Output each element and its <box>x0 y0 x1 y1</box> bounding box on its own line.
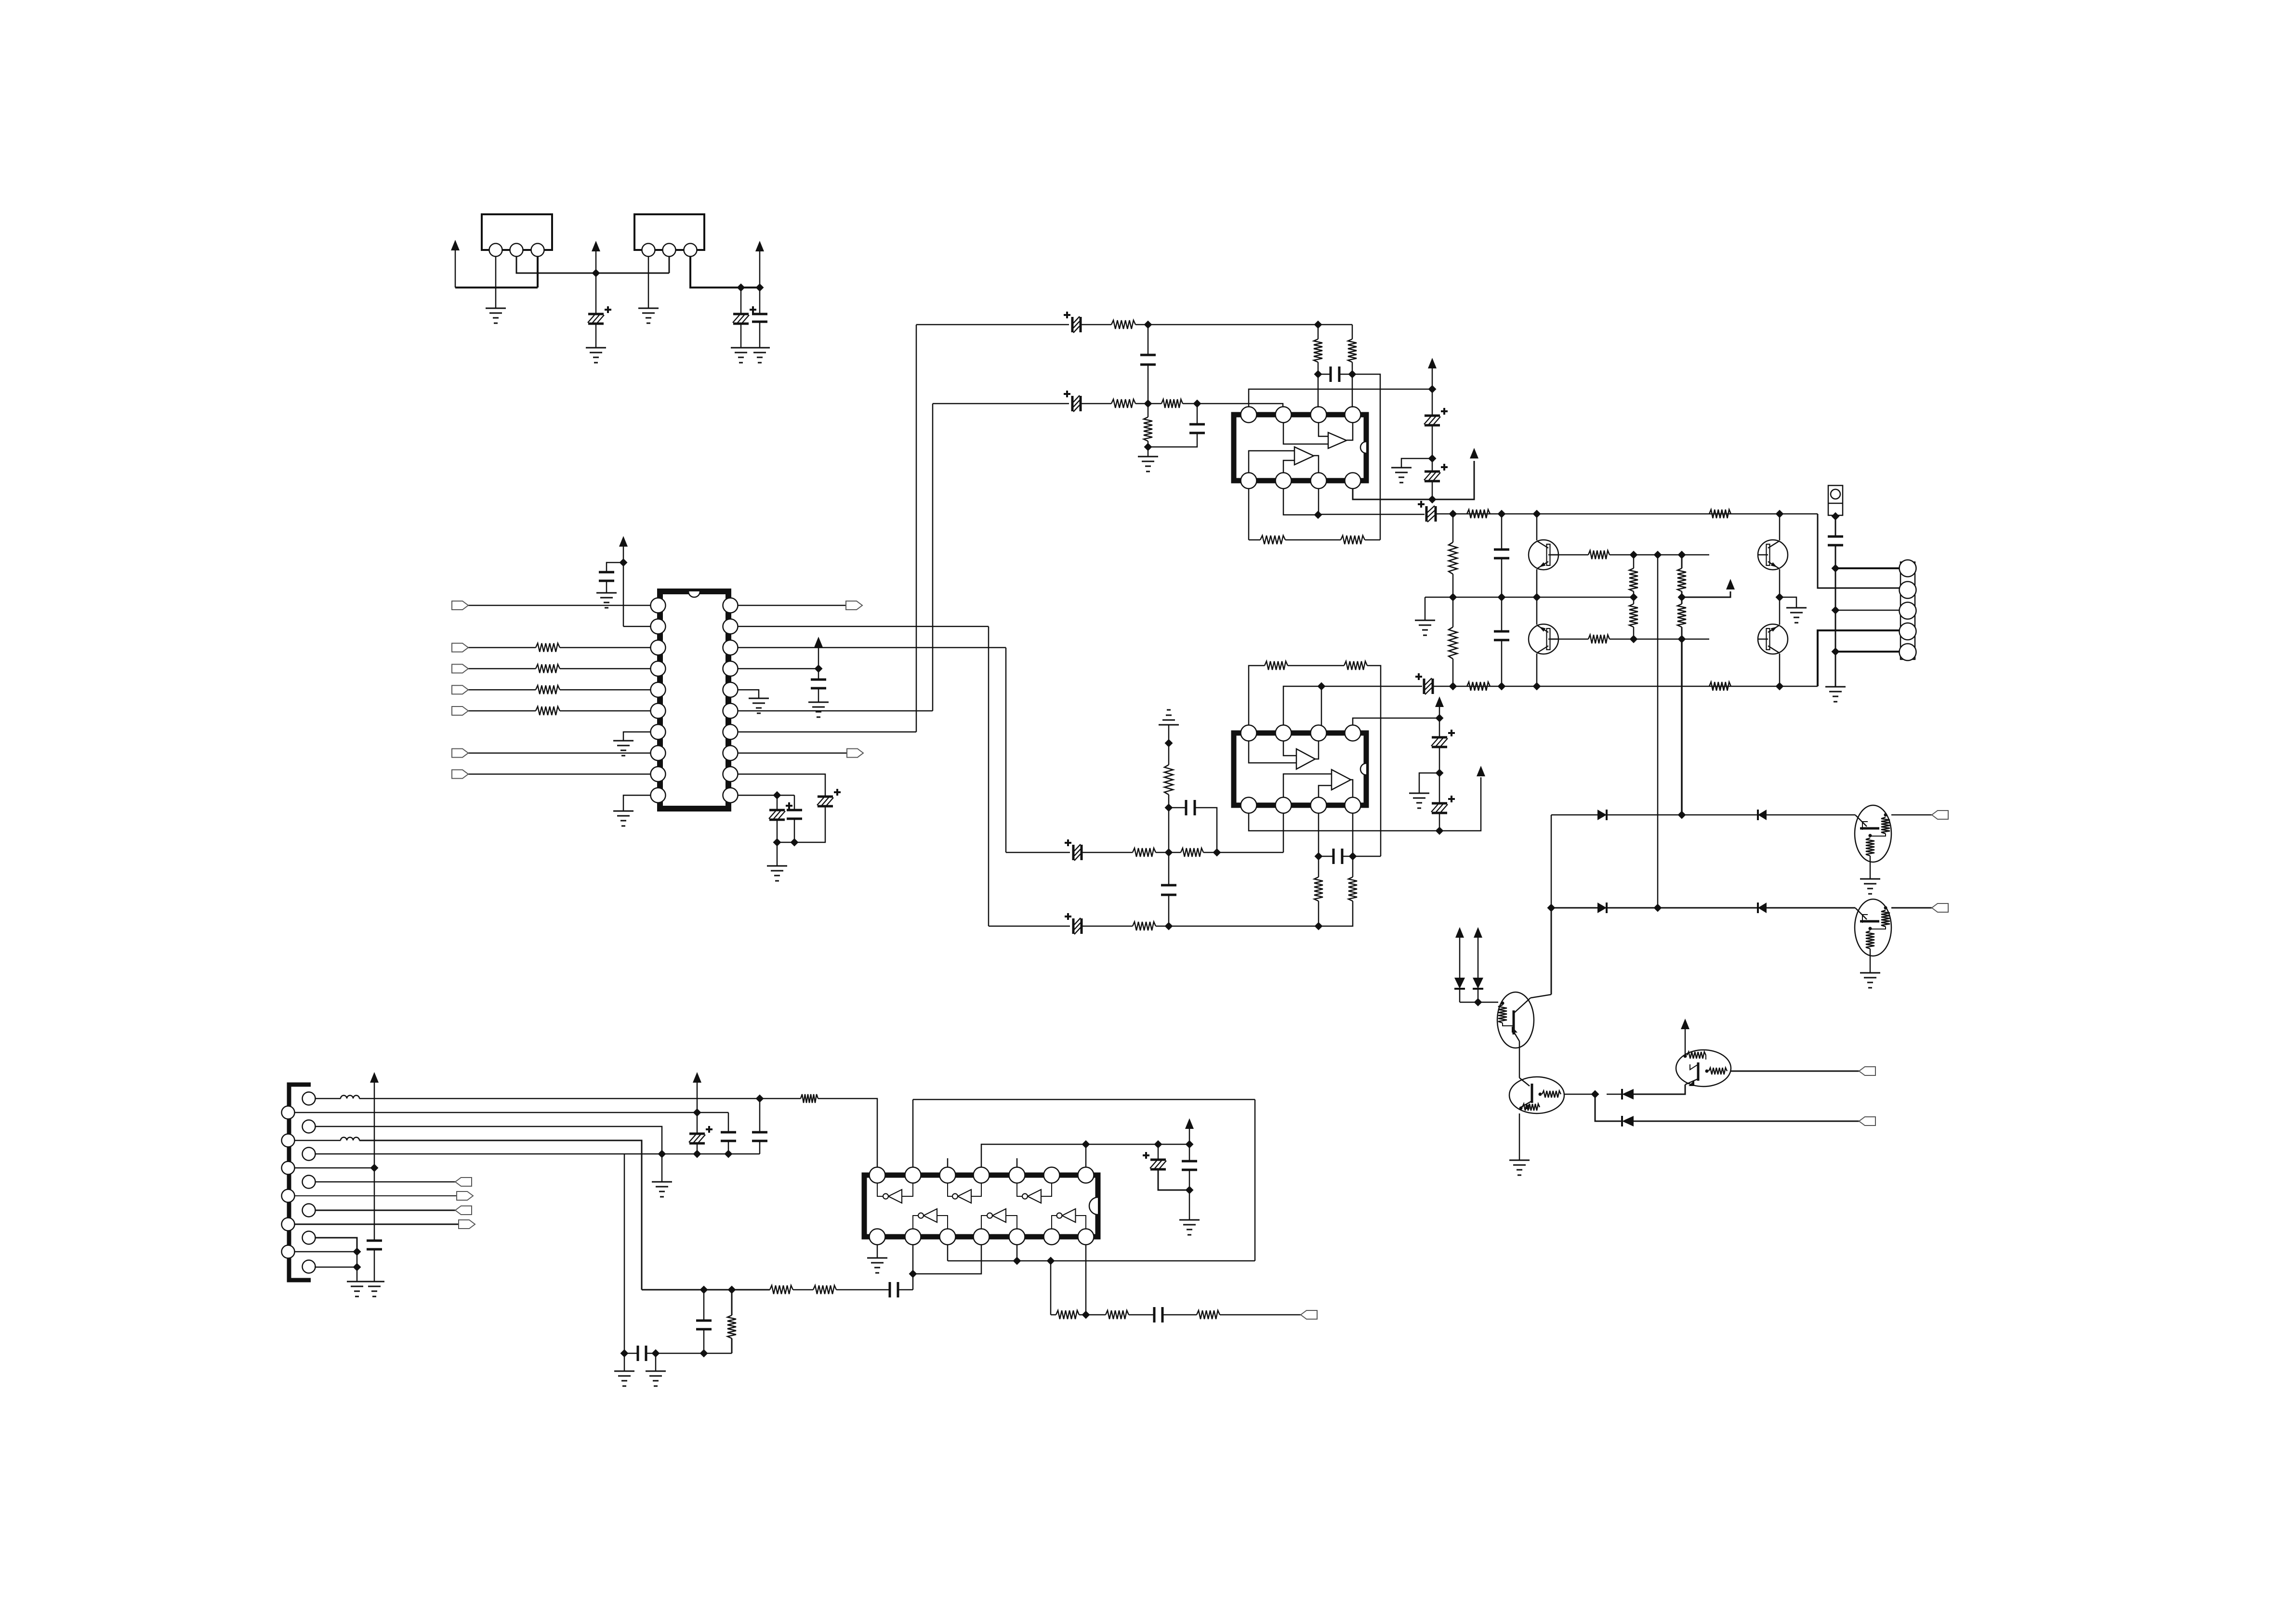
wire U1 pin3 b <box>560 647 651 648</box>
power flag chain <box>1428 358 1437 368</box>
U3 pin 7 top <box>1276 725 1292 741</box>
wire row4 out <box>1634 1121 1859 1122</box>
wire U3 pin2 down <box>1283 813 1284 852</box>
resistor T7a Rb <box>1498 1005 1507 1023</box>
power flag VIN <box>451 240 460 250</box>
U2 pin 7 top <box>1276 407 1292 423</box>
J3 pin B4 <box>303 1176 316 1189</box>
wire T7a e <box>1519 1041 1520 1078</box>
diode D4 <box>1758 903 1767 913</box>
wire U1 pin3 a <box>468 647 536 648</box>
wire fb right <box>1367 666 1381 856</box>
node chain3 mid <box>1165 804 1173 812</box>
wire top rail a <box>1318 514 1425 515</box>
node cc k <box>1186 1186 1194 1194</box>
resistor R22 <box>1709 510 1731 518</box>
electrolytic capacitor C7 <box>769 809 785 811</box>
ground X2 <box>638 308 659 309</box>
wire Q2 base a <box>1550 639 1588 640</box>
terminal A5 <box>459 1220 475 1229</box>
wire fb b <box>1285 539 1341 541</box>
wire line B a <box>989 926 1070 927</box>
wire C2 to ground <box>740 324 742 348</box>
wire U1 pin20 <box>738 605 846 606</box>
wire U3 t1 in+ <box>1283 741 1296 756</box>
U1 pin 15 <box>723 704 738 719</box>
J3 pin A6 <box>282 1245 295 1258</box>
wire U1 pin15 route up <box>932 404 934 711</box>
wire col3491 b <box>1681 591 1683 597</box>
resistor T8 Rb2 <box>1709 1068 1727 1074</box>
wire out3 to pin5 <box>1835 651 1900 653</box>
wire U3 t1 out <box>1315 741 1319 759</box>
wire rrow corner <box>1050 1261 1052 1315</box>
wire col3391 b <box>1633 591 1635 597</box>
node base1 a <box>1630 551 1638 559</box>
node A6 j <box>353 1248 361 1256</box>
power flag bp1 <box>1477 766 1485 776</box>
wire U2 pin3 down <box>1318 488 1320 515</box>
X1 pin 2 <box>510 244 523 257</box>
ground C3 <box>750 347 770 349</box>
wire chain d <box>1432 481 1433 499</box>
wire cap row a <box>1318 374 1331 375</box>
U1 notch <box>688 591 700 597</box>
U2 pin 4 bottom <box>1345 473 1361 489</box>
U1 pin 8 <box>651 746 666 760</box>
wire B1 c <box>818 1099 877 1099</box>
wire U1 pin18 <box>738 647 1006 648</box>
power flag VREG1 <box>592 241 600 251</box>
wire mid gnd stub <box>1425 597 1426 620</box>
U1 pin 17 <box>723 661 738 676</box>
wire U4 tp3 stub <box>947 1158 949 1167</box>
wire R9 stub a <box>1318 325 1319 339</box>
wire D6 b <box>1478 989 1479 1002</box>
wire T8 c <box>1685 1029 1686 1055</box>
U4 pin 5 bottom <box>1009 1229 1025 1245</box>
op-amp U2B <box>1294 447 1314 465</box>
wire line A b <box>1082 852 1133 853</box>
node tp4 line <box>1436 714 1444 722</box>
wire tp4 line <box>981 1144 1189 1167</box>
node fb R <box>1349 852 1357 861</box>
ground output <box>1825 686 1846 688</box>
wire to C8 <box>794 795 795 810</box>
J3 pin B6 <box>303 1231 316 1244</box>
electrolytic capacitor C16 <box>1425 471 1440 473</box>
node mid c <box>1533 593 1541 602</box>
IC U4 body <box>864 1175 1098 1237</box>
wire top rail b <box>1436 513 1453 515</box>
wire U3 pin5 up <box>1353 718 1439 725</box>
node c32 j <box>725 1150 733 1158</box>
wire A1 <box>295 1112 728 1113</box>
ground C2 <box>731 347 751 349</box>
node row3 <box>1591 1090 1599 1099</box>
wire U1 pin18 route down <box>1005 648 1007 852</box>
inverter U4B <box>958 1190 971 1203</box>
node bp4 line <box>1428 496 1437 504</box>
capacitor C12 <box>1189 424 1205 433</box>
node B7 j <box>353 1263 361 1271</box>
wire R8 stub a <box>1148 404 1149 417</box>
J3 pin B7 <box>303 1260 316 1273</box>
wire input line1 b <box>1081 324 1111 326</box>
wire long v3491 <box>1681 639 1683 815</box>
ground B3 <box>652 1181 672 1183</box>
X2 pin 3 <box>684 244 697 257</box>
wire T6 rb elbow <box>1870 927 1886 929</box>
wire D5 b <box>1459 989 1461 1002</box>
wire out v a <box>1835 568 1836 610</box>
wire cc b <box>1189 1170 1190 1190</box>
wire U1 pin7 to ground <box>623 732 651 741</box>
wire c37 a <box>374 1168 375 1241</box>
wire inv out <box>948 1183 952 1196</box>
wire out v b <box>1835 610 1836 652</box>
resistor R34 <box>1106 1310 1129 1319</box>
ground C7 <box>767 865 787 867</box>
U4 pin 7 top <box>1078 1167 1094 1183</box>
ground J3 a <box>347 1281 367 1283</box>
node row2 x3441 <box>1654 904 1662 912</box>
connector J2 body <box>1828 485 1843 515</box>
transistor Q4 <box>1758 624 1788 654</box>
wire Q4 e <box>1779 597 1781 625</box>
terminal U1 pin6 <box>452 707 468 715</box>
node mid a <box>1449 593 1457 602</box>
capacitor C23 <box>1186 800 1195 815</box>
connector J2 pin circle <box>1831 489 1840 499</box>
node row2 x3220 <box>1547 904 1556 912</box>
node row1 x3491 <box>1678 811 1686 819</box>
power flag J3 <box>693 1072 701 1083</box>
wire in line a <box>642 1289 770 1291</box>
wire U2 pin1 down <box>1248 488 1250 540</box>
resistor T7b Re <box>1522 1104 1540 1111</box>
wire U1 pin11 a <box>738 795 794 796</box>
wire row1 out <box>1891 814 1932 816</box>
ground line2 net <box>1138 456 1158 458</box>
wire Q1 c <box>1536 514 1538 540</box>
U1 pin 11 <box>723 788 738 803</box>
ground inv chain <box>1159 724 1179 726</box>
node line2 A <box>1144 400 1152 408</box>
node in a <box>700 1286 708 1294</box>
resistor R7 <box>1161 399 1183 408</box>
wire c35 a <box>703 1290 705 1321</box>
wire row1 <box>1551 814 1855 816</box>
electrolytic capacitor C10 <box>1071 396 1074 411</box>
resistor T5 Re <box>1866 838 1874 856</box>
transistor T5 body <box>1855 805 1891 862</box>
wire inv in <box>937 1216 948 1229</box>
op-amp U3A <box>1296 749 1315 769</box>
wire <box>623 626 651 628</box>
U1 pin 5 <box>651 682 666 697</box>
wire rail to conn pin2 <box>1818 514 1900 588</box>
wire in line d <box>898 1289 913 1291</box>
J1 pin 1 <box>1900 560 1916 577</box>
terminal U1 pin8 <box>452 749 468 758</box>
wire to C2 <box>740 288 742 314</box>
capacitor C29 <box>1182 1161 1197 1170</box>
wire cap elbow b <box>1195 808 1217 852</box>
resistor R28 <box>1588 635 1610 643</box>
U1 pin 4 <box>651 661 666 676</box>
wire ec a <box>1158 1144 1159 1160</box>
J3 pin B1 <box>303 1092 316 1105</box>
wire C5 to ground <box>818 688 819 702</box>
wire ec31 a <box>697 1113 698 1134</box>
node bp7 <box>1082 1311 1090 1319</box>
wire R15 stub b <box>1318 901 1320 926</box>
node VREG1 <box>592 269 600 277</box>
U4 pin 1 top <box>870 1167 885 1183</box>
node B1 j <box>756 1095 764 1103</box>
node U1 pin11 <box>773 791 781 799</box>
wire X1 pin2 out <box>516 256 669 273</box>
wire row2 out <box>1891 907 1932 909</box>
resistor R27 <box>1588 550 1610 559</box>
resistor R9 <box>1314 339 1322 362</box>
wire line B b <box>1082 926 1133 927</box>
wire to U2 pin6 <box>1352 374 1353 407</box>
wire col3491 c <box>1681 597 1683 604</box>
wire tp7 up <box>1085 1144 1087 1167</box>
wire col3117 b <box>1501 558 1503 597</box>
node rail1 d <box>1776 510 1784 518</box>
wire cc gnd <box>1189 1190 1190 1220</box>
resistor R14 <box>1344 661 1367 670</box>
wire col3117 d <box>1501 640 1503 686</box>
node line A x2526 <box>1213 849 1221 857</box>
power flag T8 <box>1681 1019 1689 1029</box>
node c31 j <box>693 1150 701 1158</box>
U3 notch <box>1360 763 1366 775</box>
node line1 R <box>1144 321 1152 329</box>
ground chain2 <box>1409 793 1429 794</box>
ground Q34 <box>1786 607 1807 609</box>
capacitor C33 <box>752 1132 767 1141</box>
wire U4 bp5 up <box>1016 1245 1018 1261</box>
U1 pin 18 <box>723 640 738 655</box>
op-amp U3B <box>1332 770 1351 790</box>
wire U1 pin17 <box>738 668 818 669</box>
electrolytic capacitor C17 <box>1423 679 1425 694</box>
wire chain c <box>1432 458 1433 471</box>
node line A x2426 <box>1165 849 1173 857</box>
U2 pin 2 bottom <box>1276 473 1292 489</box>
ground filter 1 <box>614 1371 634 1372</box>
wire U1 pin5 a <box>468 689 536 691</box>
diode D6 <box>1473 978 1483 989</box>
X1 pin 1 <box>489 244 502 257</box>
wire rrow b <box>1079 1314 1106 1316</box>
wire U2 t2 in+ <box>1249 451 1294 473</box>
wire A2 a <box>295 1140 341 1141</box>
wire T6 e <box>1870 949 1871 973</box>
J3 pin B3 <box>303 1148 316 1161</box>
wire U1 pin13 <box>738 752 847 754</box>
wire rail to conn pin4 <box>1818 630 1900 686</box>
wire U4 tp2 out <box>912 1099 914 1167</box>
wire U2 t1 in+ <box>1319 422 1328 436</box>
terminal U1 pin5 <box>452 685 468 694</box>
node bp2 <box>909 1270 917 1278</box>
wire line B c <box>1156 926 1319 927</box>
wire T7a rb elbow <box>1503 1023 1514 1026</box>
node rail2 a <box>1449 682 1457 691</box>
op-amp U2A <box>1328 432 1346 448</box>
wire inv out <box>877 1183 883 1196</box>
node rail2 d <box>1776 682 1784 691</box>
ground U4 bp1 <box>867 1257 887 1259</box>
wire B3 gnd stub <box>661 1154 663 1182</box>
wire T5 rb elbow <box>1870 834 1886 836</box>
wire col3391 c <box>1633 597 1635 604</box>
J3 pin B2 <box>303 1120 316 1133</box>
ground C1 <box>586 347 606 349</box>
wire C6 down <box>794 806 825 842</box>
wire row4 elbow <box>1595 1094 1622 1121</box>
electrolytic capacitor C31 <box>689 1133 705 1135</box>
electrolytic capacitor C18 <box>1432 736 1447 739</box>
wire Q34 gnd stub <box>1780 597 1796 608</box>
terminal AOUT <box>1301 1310 1317 1319</box>
wire Q3 c <box>1779 514 1781 540</box>
wire U3 pin4 down <box>1352 813 1354 856</box>
wire VREG1 to C1 <box>595 273 597 314</box>
wire U2 t2 out <box>1314 456 1319 473</box>
transistor T6 body <box>1855 899 1891 956</box>
U2 notch <box>1360 442 1366 453</box>
wire r39 a <box>731 1290 733 1315</box>
J3 pin A1 <box>282 1106 295 1119</box>
wire row2 to T7a <box>1551 908 1552 995</box>
resistor R20 <box>1164 765 1173 795</box>
ground A3 <box>364 1281 384 1283</box>
resistor R5 <box>1111 320 1135 329</box>
node out2 <box>1832 606 1840 615</box>
U1 pin 16 <box>723 682 738 697</box>
node tp7 j <box>1082 1140 1090 1149</box>
wire J2 to C27 <box>1835 516 1836 537</box>
capacitor C5 <box>811 680 826 688</box>
power flag U1 VCC <box>619 536 628 547</box>
wire top rail <box>1453 513 1818 515</box>
wire cap elbow a <box>1169 807 1186 809</box>
wire U1 pin5 b <box>560 689 651 691</box>
node C8 bottom <box>791 838 799 847</box>
resistor R23 <box>1467 682 1490 691</box>
wire B3 drop <box>624 1154 625 1353</box>
inverter U4C <box>1028 1190 1041 1203</box>
transistor Q2 <box>1529 624 1558 654</box>
node f b <box>652 1349 660 1358</box>
ground U1 pin7 <box>613 740 633 742</box>
wire cap row2 a <box>1319 856 1333 857</box>
J1 pin 5 <box>1900 644 1916 661</box>
wire C27 down <box>1835 545 1836 568</box>
node rail1 a <box>1449 510 1457 518</box>
wire VCC to C4 <box>607 563 623 572</box>
wire A2 b <box>359 1140 642 1290</box>
node det a <box>1013 1257 1021 1265</box>
U4 pin 7 bottom <box>1078 1229 1094 1245</box>
IC U1 body <box>660 591 728 809</box>
wire U4 out detour c <box>948 1260 1255 1262</box>
ground filter 2 <box>646 1371 666 1372</box>
resistor R38 <box>813 1285 836 1294</box>
wire bottom rail <box>1453 686 1818 687</box>
wire R8 stub b <box>1148 441 1149 447</box>
transistor Q3 <box>1758 540 1788 570</box>
capacitor C8 <box>787 810 802 819</box>
wire U2 pin4 down <box>1353 461 1474 499</box>
wire U1 pin19 <box>738 626 989 628</box>
transistor T7a body <box>1497 992 1534 1048</box>
wire A4 <box>295 1195 457 1196</box>
wire fb join <box>1353 856 1381 857</box>
X2 pin 2 <box>663 244 676 257</box>
wire C12 up <box>1197 404 1198 424</box>
wire inv out <box>981 1216 987 1229</box>
wire mid rail <box>1425 597 1634 598</box>
node base2 b <box>1678 635 1686 643</box>
IC U3 body <box>1234 733 1366 805</box>
terminal OUT2 <box>1932 903 1948 912</box>
wire X2 pin1 to ground <box>648 256 649 308</box>
node chain mid <box>1428 455 1437 463</box>
resistor R39 <box>727 1315 736 1338</box>
resistor R36 <box>801 1094 818 1103</box>
node U1 pin17 <box>815 665 823 673</box>
terminal B5 <box>455 1206 472 1215</box>
wire row1 corner <box>1551 815 1552 908</box>
J1 pin 3 <box>1900 602 1916 619</box>
node rail L <box>1314 511 1322 519</box>
wire U3 pin6 up <box>1321 686 1322 725</box>
U4 pin 2 bottom <box>905 1229 921 1245</box>
wire c35 b <box>703 1329 705 1353</box>
wire to U2 pin7 <box>1318 374 1319 407</box>
electrolytic capacitor C21 <box>1072 845 1075 860</box>
node VREG2 A <box>737 284 745 292</box>
node rail1 c <box>1533 510 1541 518</box>
resistor R29 <box>1629 568 1638 591</box>
X1 pin 3 <box>531 244 544 257</box>
wire C8 down <box>794 819 795 842</box>
electrolytic capacitor C1 <box>588 313 604 315</box>
node R8 bottom <box>1144 443 1152 451</box>
wire cap row2 b <box>1342 856 1353 857</box>
U2 pin 3 bottom <box>1311 473 1327 489</box>
node B3 gnd j <box>658 1150 666 1158</box>
node base1 b <box>1654 551 1662 559</box>
wire Q2 e <box>1536 597 1538 625</box>
terminal OUT3 <box>1859 1067 1875 1075</box>
resistor R12 <box>1341 536 1365 544</box>
node U1 VCC <box>620 559 628 567</box>
wire bias arrow <box>1682 591 1730 597</box>
U4 pin 6 bottom <box>1044 1229 1060 1245</box>
node tp1 line R <box>1428 385 1437 393</box>
wire VCC to U1 pin2 <box>623 562 624 627</box>
IC U2 body <box>1234 415 1366 481</box>
wire inv in <box>1006 1216 1017 1229</box>
